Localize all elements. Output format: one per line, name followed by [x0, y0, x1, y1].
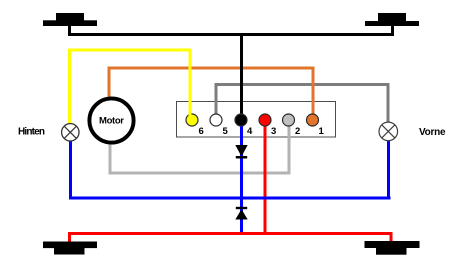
wire blue: horizontal bus: [69, 197, 391, 200]
svg-text:5: 5: [223, 126, 229, 137]
svg-text:3: 3: [271, 126, 276, 137]
pin 3 (red): [259, 114, 271, 126]
svg-text:1: 1: [319, 126, 325, 137]
svg-text:4: 4: [247, 126, 253, 137]
wire red: bottom horizontal bus: [68, 232, 393, 235]
lamp Hinten (rear): [62, 124, 79, 141]
svg-text:6: 6: [199, 126, 204, 137]
wire light-gray: vertical from motor bottom: [109, 141, 112, 175]
wire light-gray: riser to pin 2: [288, 124, 291, 175]
lamp Vorne (front): [379, 122, 398, 141]
pin 4 (black): [235, 114, 247, 126]
chassis terminal top-left: [43, 13, 97, 26]
wire black: stub from top-left terminal: [68, 25, 71, 36]
pin 1 (orange): [307, 114, 319, 126]
wire light-gray: horizontal run: [109, 172, 291, 175]
motor M1 circle: [89, 98, 133, 142]
wire dark-gray: drop to Vorne lamp: [387, 83, 390, 123]
pin 2 (gray): [283, 114, 295, 126]
diode D1 (cathode down) on blue center wire: [235, 145, 247, 159]
wire red: stub to bottom-right terminal: [390, 232, 393, 242]
wire red: stub to bottom-left terminal: [68, 232, 71, 242]
wire black: top horizontal bus: [68, 33, 394, 36]
wire blue: center vertical from pin 4 through diodes: [240, 124, 243, 234]
wire black: stub from top-right terminal: [391, 26, 394, 36]
wire red: vertical from pin 3: [264, 124, 267, 235]
wire dark-gray: horizontal run: [215, 83, 390, 86]
svg-text:Motor: Motor: [99, 116, 124, 127]
pin 5 (white): [210, 114, 222, 126]
wire yellow: horizontal run: [68, 49, 192, 52]
wire dark-gray: riser from pin 5: [215, 83, 218, 116]
wire blue: vertical from Hinten lamp: [69, 140, 72, 200]
wire yellow: drop to pin 6: [189, 49, 192, 116]
wire orange: vertical to motor top: [108, 67, 111, 99]
chassis terminal bottom-right: [365, 241, 420, 255]
chassis terminal bottom-left: [43, 242, 97, 255]
diode D2 (cathode up) on blue center wire: [235, 207, 247, 220]
svg-text:2: 2: [295, 126, 300, 137]
wire black: center drop to pin 4: [240, 33, 243, 117]
svg-text:Hinten: Hinten: [18, 127, 45, 138]
connector block body: [177, 102, 336, 138]
wire yellow: vertical to Hinten lamp: [68, 49, 71, 125]
svg-text:Vorne: Vorne: [419, 127, 446, 138]
chassis terminal top-right: [365, 13, 419, 26]
pin 6 (yellow): [186, 114, 198, 126]
wire orange: drop to pin 1: [312, 67, 315, 116]
wire orange: horizontal run: [108, 67, 315, 70]
wire yellow: tip overlapping pin 6 ring: [189, 112, 192, 118]
wire blue: vertical from Vorne lamp: [387, 140, 390, 200]
